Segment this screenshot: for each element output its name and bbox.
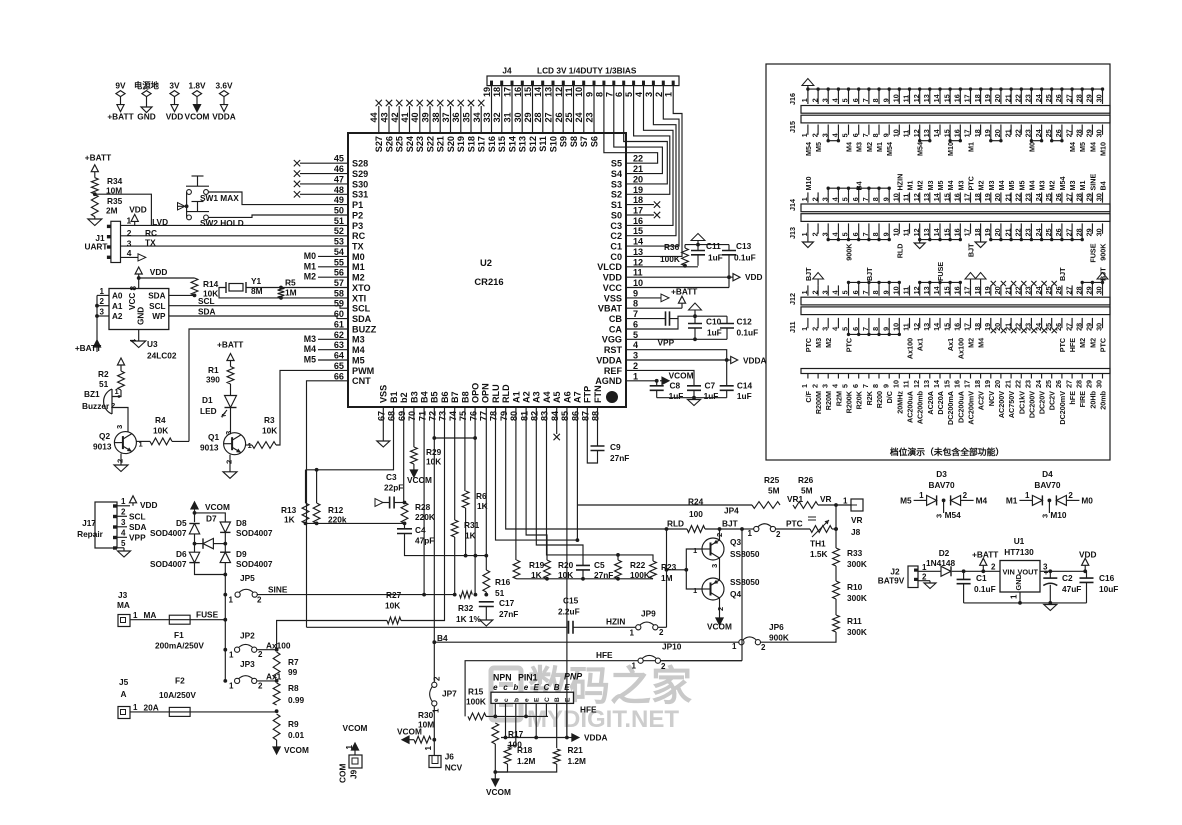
svg-text:S11: S11: [538, 136, 548, 152]
svg-text:A7: A7: [573, 391, 583, 403]
switch SW2 HOLD: [186, 202, 209, 220]
wire R6 to OPO bus: [465, 508, 467, 556]
Q4 emitter VCOM: [719, 598, 721, 612]
U1 pin1 gnd wire: [1019, 592, 1021, 603]
svg-text:10K: 10K: [153, 426, 168, 436]
svg-text:M10: M10: [1050, 510, 1067, 520]
svg-text:26: 26: [1054, 94, 1063, 102]
svg-text:900K: 900K: [769, 633, 789, 643]
svg-text:M5: M5: [352, 355, 365, 365]
svg-text:A3: A3: [532, 391, 542, 403]
svg-text:3: 3: [820, 290, 829, 294]
svg-text:1: 1: [127, 216, 132, 226]
svg-text:18: 18: [973, 193, 982, 201]
svg-text:M2: M2: [352, 273, 365, 283]
svg-text:PTC: PTC: [845, 338, 854, 352]
svg-text:VDD: VDD: [1079, 550, 1097, 560]
svg-text:+BATT: +BATT: [85, 153, 111, 163]
svg-text:1.8V: 1.8V: [188, 81, 206, 91]
J11 bottom pins: [800, 318, 1104, 331]
svg-text:10: 10: [892, 94, 901, 102]
wire D2 to U1: [952, 570, 1000, 572]
svg-text:SS8050: SS8050: [730, 549, 760, 559]
svg-text:99: 99: [288, 667, 298, 677]
crystal Y1: [226, 282, 246, 293]
capacitor C8: [656, 381, 658, 386]
svg-text:11: 11: [902, 380, 911, 388]
svg-text:73: 73: [438, 411, 448, 421]
svg-text:VCOM: VCOM: [185, 112, 210, 122]
svg-text:17: 17: [963, 193, 972, 201]
svg-text:M3: M3: [956, 181, 965, 191]
wire RLU to upper line tee: [496, 407, 578, 540]
svg-text:A1: A1: [511, 391, 521, 403]
svg-text:21: 21: [1003, 129, 1012, 137]
svg-text:PWM: PWM: [352, 366, 374, 376]
svg-text:300K: 300K: [847, 559, 867, 569]
svg-text:P2: P2: [352, 210, 363, 220]
svg-text:38: 38: [431, 112, 441, 122]
svg-text:F2: F2: [175, 676, 185, 686]
svg-text:M3: M3: [926, 181, 935, 191]
svg-text:1: 1: [1010, 594, 1019, 599]
svg-text:44: 44: [369, 111, 379, 122]
capacitor C3: [390, 497, 395, 509]
svg-text:1: 1: [664, 92, 674, 97]
range stub bar: [801, 369, 1110, 374]
svg-text:M10: M10: [804, 177, 813, 191]
svg-text:RLD: RLD: [895, 244, 904, 259]
svg-text:9: 9: [881, 133, 890, 137]
power flag above C11: [691, 234, 705, 245]
Q3/Q4 base bracket: [686, 549, 702, 589]
svg-text:R35: R35: [107, 196, 123, 206]
+BATT flag U3: [96, 347, 98, 352]
svg-text:B4: B4: [1099, 181, 1108, 190]
svg-text:HFE: HFE: [1068, 338, 1077, 353]
svg-text:17: 17: [963, 323, 972, 331]
C9 bottom wire: [587, 407, 597, 463]
no-connect top pin 41: [409, 106, 411, 133]
svg-text:Q4: Q4: [730, 589, 741, 599]
svg-text:SOD4007: SOD4007: [150, 528, 187, 538]
svg-text:WP: WP: [152, 312, 166, 321]
wire R33-R10: [835, 566, 837, 581]
svg-text:2: 2: [963, 491, 968, 500]
AGND line: [626, 380, 657, 382]
svg-text:22: 22: [1014, 129, 1023, 137]
svg-text:M2: M2: [1088, 338, 1097, 348]
svg-text:S12: S12: [528, 136, 538, 152]
svg-text:6: 6: [851, 133, 860, 137]
svg-text:PIN1: PIN1: [518, 673, 538, 683]
svg-text:9: 9: [881, 98, 890, 102]
svg-text:D9: D9: [236, 549, 247, 559]
svg-text:R200K: R200K: [845, 390, 854, 413]
resistor R22: [615, 560, 622, 579]
svg-text:1: 1: [919, 491, 924, 500]
svg-text:15: 15: [523, 87, 533, 97]
svg-text:VDD: VDD: [140, 500, 158, 510]
J13 bottom net labels: [845, 243, 1108, 263]
svg-text:AC200V: AC200V: [997, 391, 1006, 418]
svg-text:16: 16: [513, 87, 523, 97]
svg-text:RST: RST: [604, 345, 623, 355]
U2 left pin names: [352, 159, 377, 387]
U2 pin1 mark: [606, 391, 618, 403]
RST/VPP line: [626, 350, 727, 360]
HZIN line: [307, 626, 567, 628]
no-connect top pin 39: [429, 106, 431, 133]
svg-text:C: C: [544, 683, 550, 692]
svg-text:C5: C5: [594, 560, 605, 570]
wire JP4 to TH1: [776, 528, 811, 530]
svg-text:BZ1: BZ1: [84, 389, 100, 399]
capacitor C16: [1086, 571, 1088, 578]
svg-text:51: 51: [99, 379, 109, 389]
no-connect top pin 42: [398, 106, 400, 133]
svg-text:VDD: VDD: [745, 272, 763, 282]
svg-text:24: 24: [1034, 193, 1043, 201]
svg-text:9V: 9V: [115, 81, 126, 91]
fuse F1: [169, 615, 190, 624]
wire J4 pin 19 to U2: [491, 86, 493, 133]
svg-text:2: 2: [111, 401, 115, 410]
svg-text:220K: 220K: [415, 512, 435, 522]
power flag 9V/+BATT: [107, 81, 133, 122]
svg-text:S23: S23: [415, 136, 425, 152]
diode D2: [941, 566, 951, 576]
svg-text:60: 60: [334, 309, 344, 319]
svg-text:S9: S9: [559, 136, 569, 147]
svg-text:24: 24: [1034, 94, 1043, 102]
svg-text:3: 3: [100, 308, 105, 317]
J15 bottom pins: [800, 125, 1104, 138]
svg-text:10: 10: [892, 193, 901, 201]
svg-text:16: 16: [953, 323, 962, 331]
wire LED to Q1 collector: [230, 408, 232, 433]
svg-text:25: 25: [1044, 193, 1053, 201]
svg-text:390: 390: [206, 375, 220, 385]
svg-text:48: 48: [334, 185, 344, 195]
svg-text:DC20V: DC20V: [1038, 391, 1047, 414]
svg-text:M4: M4: [1068, 142, 1077, 152]
svg-text:A2: A2: [522, 391, 532, 403]
svg-text:B4: B4: [855, 181, 864, 190]
C3 left flag: [383, 502, 390, 504]
VCOM flag AGND: [660, 380, 662, 382]
svg-text:27: 27: [1064, 94, 1073, 102]
resistor R7: [273, 652, 280, 678]
svg-text:15: 15: [942, 286, 951, 294]
svg-text:UART: UART: [84, 242, 107, 252]
svg-text:e: e: [493, 683, 498, 692]
svg-text:300K: 300K: [847, 593, 867, 603]
resistor R15: [468, 713, 486, 720]
resistor R35: [91, 195, 98, 217]
connector J2 body: [908, 566, 918, 588]
wire J4 pin 16 to U2: [521, 86, 523, 133]
wire J4 pin 15 to U2: [532, 86, 534, 133]
wire B7 to R31: [454, 407, 456, 520]
svg-text:26: 26: [554, 112, 564, 122]
svg-text:2: 2: [922, 573, 927, 582]
svg-text:S5: S5: [611, 159, 622, 169]
svg-text:21: 21: [1003, 94, 1012, 102]
svg-text:29: 29: [1085, 380, 1094, 388]
J5 pin wire: [130, 711, 169, 713]
svg-text:200mA/250V: 200mA/250V: [155, 641, 204, 651]
svg-text:28: 28: [1074, 286, 1083, 294]
svg-text:24: 24: [574, 111, 584, 122]
svg-text:SINE: SINE: [1088, 174, 1097, 191]
svg-text:12: 12: [554, 87, 564, 97]
wire A1 to R19: [515, 407, 517, 560]
svg-text:28: 28: [1074, 380, 1083, 388]
svg-text:12: 12: [912, 380, 921, 388]
U2 right pin names: [595, 159, 623, 387]
wire C5 bottom: [582, 570, 584, 579]
svg-text:11: 11: [902, 130, 911, 138]
transistor Q1 9013: [224, 433, 246, 455]
svg-text:D/C: D/C: [885, 391, 894, 403]
VSS pin 67 ground: [382, 407, 384, 441]
svg-text:11: 11: [633, 268, 643, 278]
svg-text:LCD 3V 1/4DUTY 1/3BIAS: LCD 3V 1/4DUTY 1/3BIAS: [537, 66, 637, 76]
svg-text:VSS: VSS: [379, 385, 389, 403]
U2 left pin stubs with labels: [304, 251, 348, 365]
svg-text:M1: M1: [1078, 181, 1087, 191]
svg-text:1.5K: 1.5K: [810, 549, 828, 559]
svg-text:21: 21: [1003, 286, 1012, 294]
svg-text:VCOM: VCOM: [343, 723, 368, 733]
svg-text:4: 4: [831, 384, 840, 388]
svg-text:R33: R33: [847, 548, 863, 558]
svg-text:29: 29: [1085, 228, 1094, 236]
svg-text:VDDA: VDDA: [743, 356, 767, 366]
svg-text:3: 3: [115, 425, 124, 429]
svg-text:FIRE: FIRE: [1078, 391, 1087, 408]
svg-text:3: 3: [710, 564, 719, 568]
svg-text:34: 34: [472, 111, 482, 122]
svg-text:PTC: PTC: [967, 176, 976, 190]
svg-text:54: 54: [334, 247, 345, 257]
svg-text:1: 1: [133, 703, 138, 712]
svg-text:F1: F1: [174, 630, 184, 640]
svg-text:R200M: R200M: [814, 391, 823, 414]
svg-text:R21: R21: [568, 745, 584, 755]
diode D6: [194, 544, 196, 553]
wire R27 to B6: [401, 407, 445, 621]
cap bottom bus + gnd: [657, 397, 727, 399]
svg-text:1: 1: [800, 327, 809, 331]
svg-text:1K: 1K: [284, 515, 295, 525]
svg-text:10K: 10K: [385, 601, 400, 611]
svg-text:C10: C10: [706, 317, 722, 327]
svg-text:55: 55: [334, 257, 344, 267]
IC U1 HT7130 body: [1000, 561, 1040, 593]
svg-text:RLD: RLD: [501, 384, 511, 403]
svg-text:R30: R30: [418, 710, 434, 720]
no-connect top pin 44: [378, 106, 380, 133]
svg-text:27: 27: [1064, 323, 1073, 331]
svg-text:33: 33: [482, 112, 492, 122]
svg-text:27nF: 27nF: [499, 609, 518, 619]
VSS flag: [626, 297, 661, 299]
svg-text:B5: B5: [430, 391, 440, 403]
wire JP6 to R11: [761, 632, 837, 642]
svg-text:M3: M3: [304, 334, 316, 344]
capacitor C15: [569, 621, 574, 634]
svg-text:VCC: VCC: [603, 283, 623, 293]
wire JP3 to Ax1: [257, 680, 277, 682]
svg-text:57: 57: [334, 278, 344, 288]
svg-text:VGG: VGG: [602, 335, 622, 345]
svg-text:SW1 MAX: SW1 MAX: [200, 193, 239, 203]
svg-text:3: 3: [820, 327, 829, 331]
wire divider tap to LVD: [95, 194, 152, 225]
wire F2 to R8/R9 junction: [190, 711, 277, 713]
svg-text:32: 32: [492, 112, 502, 122]
J15 bottom bridges: [827, 135, 1064, 143]
svg-text:A: A: [121, 689, 127, 699]
svg-text:78: 78: [489, 411, 499, 421]
svg-text:11: 11: [902, 229, 911, 237]
svg-text:4: 4: [831, 290, 840, 294]
svg-text:58: 58: [334, 288, 344, 298]
svg-text:3: 3: [127, 238, 132, 248]
wire R17 to bottom bus: [494, 744, 496, 772]
svg-text:81: 81: [519, 411, 529, 421]
svg-text:9: 9: [881, 384, 890, 388]
svg-text:VSS: VSS: [604, 293, 622, 303]
svg-text:2: 2: [810, 197, 819, 201]
resistor R1: [227, 367, 234, 385]
VDD pin line with flag: [626, 276, 729, 278]
svg-text:XTI: XTI: [352, 293, 366, 303]
capacitor C12: [726, 316, 728, 323]
svg-text:C13: C13: [736, 241, 752, 251]
transistor Q3 SS8050: [702, 538, 724, 560]
svg-text:24: 24: [1034, 286, 1043, 294]
transistor Q2 9013: [114, 432, 136, 454]
svg-text:6: 6: [851, 197, 860, 201]
wire JP9 to riser: [658, 626, 667, 628]
svg-text:M2: M2: [304, 272, 316, 282]
svg-text:17: 17: [963, 380, 972, 388]
svg-text:M10: M10: [946, 142, 955, 156]
svg-text:70: 70: [407, 411, 417, 421]
svg-text:A6: A6: [562, 391, 572, 403]
svg-text:1: 1: [1025, 491, 1030, 500]
svg-text:NCV: NCV: [987, 391, 996, 406]
svg-text:35: 35: [462, 112, 472, 122]
svg-text:51: 51: [495, 588, 505, 598]
svg-text:13: 13: [633, 247, 643, 257]
wire to J6: [433, 740, 435, 756]
C17 gnd: [485, 607, 487, 621]
svg-text:+BATT: +BATT: [972, 550, 998, 560]
svg-text:62: 62: [334, 330, 344, 340]
buzzer BZ1: [104, 387, 121, 414]
CNT wire to HZIN line: [307, 381, 349, 628]
J11 bottom no-connects: [991, 328, 1057, 333]
capacitor C2 polarized: [1049, 571, 1051, 578]
wire R2 to buzzer pin1: [112, 390, 121, 397]
svg-text:26: 26: [1054, 193, 1063, 201]
svg-text:15: 15: [942, 94, 951, 102]
svg-text:P1: P1: [352, 200, 363, 210]
svg-text:S20: S20: [446, 136, 456, 152]
svg-text:JP2: JP2: [240, 631, 255, 641]
wire crystal left to XTI: [219, 288, 348, 298]
wire J4 pin 1 to U2 pin 13: [626, 86, 682, 257]
svg-text:76: 76: [468, 411, 478, 421]
capacitor C10: [694, 316, 696, 323]
svg-text:M5: M5: [304, 355, 316, 365]
svg-text:2: 2: [127, 228, 132, 238]
svg-text:R22: R22: [630, 560, 646, 570]
svg-text:49: 49: [334, 195, 344, 205]
wire fuse to vertical: [190, 619, 225, 621]
diode D7: [203, 538, 213, 548]
wire R10-R11: [835, 599, 837, 615]
svg-text:1: 1: [633, 371, 638, 381]
svg-text:16: 16: [953, 193, 962, 201]
svg-text:S21: S21: [436, 136, 446, 152]
svg-text:23: 23: [1024, 380, 1033, 388]
svg-text:0.1uF: 0.1uF: [737, 328, 759, 338]
svg-text:J4: J4: [502, 66, 512, 76]
svg-text:E: E: [534, 697, 541, 702]
svg-text:2: 2: [810, 232, 819, 236]
diode D8: [220, 522, 230, 532]
svg-text:4: 4: [121, 529, 126, 538]
svg-text:VDD: VDD: [166, 112, 184, 122]
svg-text:72: 72: [428, 411, 438, 421]
no-connect top pin 36: [460, 106, 462, 133]
svg-text:20: 20: [993, 380, 1002, 388]
connector J6 body: [429, 756, 441, 768]
svg-text:+BATT: +BATT: [217, 340, 243, 350]
ground R35: [94, 217, 96, 219]
svg-text:B: B: [554, 683, 560, 692]
svg-text:AC750V: AC750V: [1007, 391, 1016, 418]
svg-text:D8: D8: [236, 518, 247, 528]
svg-text:27: 27: [544, 112, 554, 122]
resistor R16: [483, 570, 490, 592]
svg-text:13: 13: [922, 380, 931, 388]
switch common wire with flag: [186, 192, 188, 217]
svg-text:17: 17: [963, 286, 972, 294]
bus for R36/C11/C13: [685, 244, 729, 246]
svg-text:75: 75: [458, 411, 468, 421]
svg-text:B3: B3: [409, 391, 419, 403]
svg-text:88: 88: [591, 411, 601, 421]
svg-text:R7: R7: [288, 657, 299, 667]
svg-text:18: 18: [633, 195, 643, 205]
svg-text:10: 10: [892, 228, 901, 236]
svg-text:BJT: BJT: [722, 519, 738, 529]
svg-text:J3: J3: [118, 590, 128, 600]
J13 bottom pins: [800, 223, 1104, 236]
CB/CA loop with cap: [626, 318, 666, 320]
svg-text:2: 2: [116, 459, 125, 463]
svg-text:19: 19: [482, 87, 492, 97]
svg-text:23: 23: [1024, 193, 1033, 201]
resistor R26: [793, 502, 818, 509]
svg-text:6: 6: [851, 384, 860, 388]
